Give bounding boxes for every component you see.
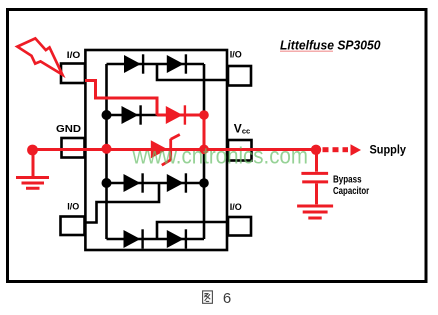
svg-text:I/O: I/O	[67, 202, 79, 212]
svg-text:Bypass: Bypass	[333, 174, 362, 185]
svg-text:I/O: I/O	[67, 50, 81, 60]
svg-text:Supply: Supply	[370, 143, 407, 157]
svg-text:I/O: I/O	[230, 49, 242, 59]
svg-text:Capacitor: Capacitor	[333, 186, 369, 197]
svg-text:Littelfuse SP3050: Littelfuse SP3050	[280, 38, 381, 53]
svg-text:GND: GND	[56, 123, 81, 135]
svg-text:www.cntronics.com: www.cntronics.com	[132, 143, 308, 169]
svg-text:6: 6	[223, 290, 231, 307]
svg-text:I/O: I/O	[230, 202, 242, 212]
